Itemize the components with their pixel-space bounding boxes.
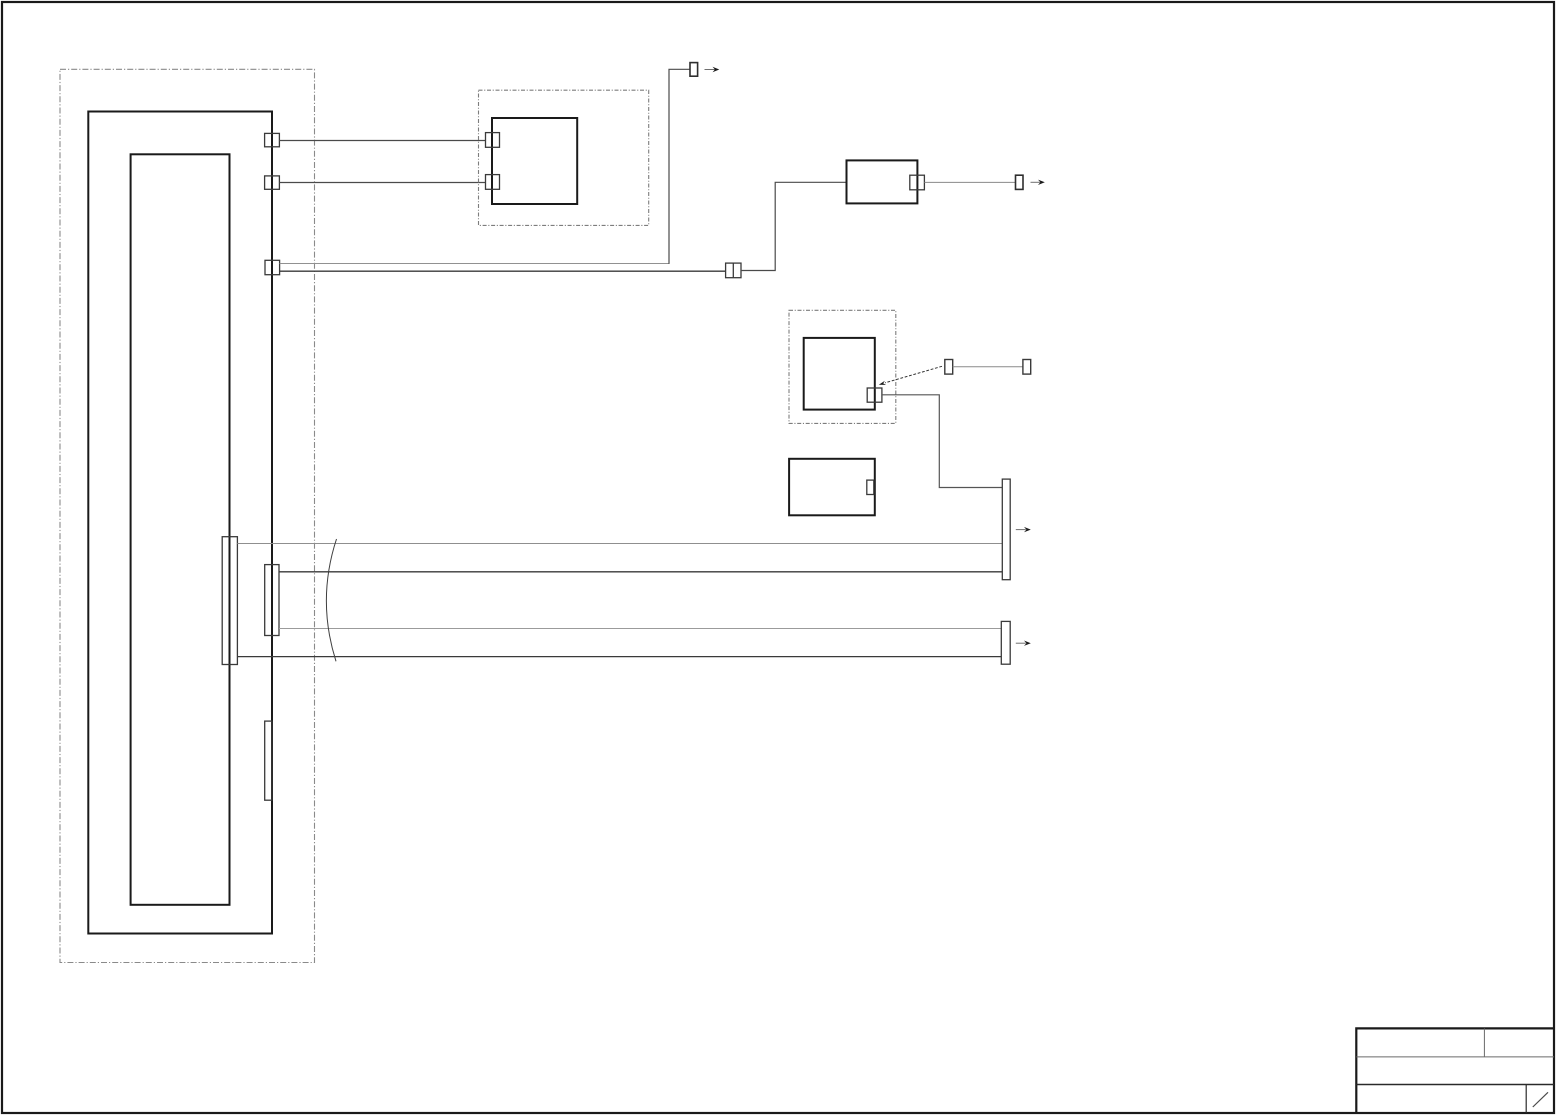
connector X3 (pin 3 on U1 right edge) — [265, 260, 280, 274]
enclosure E3 (dash-dot boundary around sensor unit) — [789, 310, 896, 423]
title block row line 1 — [1356, 1056, 1554, 1058]
connector X7 (pin on U4 right edge, lower) — [867, 388, 882, 402]
connector strip J3 (lower, on U1 outer edge) — [265, 721, 272, 800]
terminal T1 (off-page connector) — [690, 63, 698, 77]
wire W10 (J2 top to SB1) — [279, 571, 1002, 573]
title block column line (row 1) — [1483, 1028, 1485, 1057]
connector X4 (pin on U2 left edge, upper) — [486, 133, 500, 148]
wire W11 (J2 bottom to SB2) — [279, 628, 1001, 630]
splice bar SB2 — [1001, 621, 1010, 664]
component box U1a (inner panel) — [131, 154, 230, 905]
title block row line 2 — [1356, 1084, 1554, 1086]
connector X8 (pin inside U5 right edge) — [867, 480, 874, 494]
wire W2 (X2 to X5) — [279, 182, 485, 184]
title block frame — [1356, 1028, 1554, 1113]
wire W6 (X6 to off-page terminal T2) — [924, 181, 1015, 183]
component box U2 (switch unit) — [492, 118, 577, 204]
leader arrow A3 (callout pointing at X7) — [885, 366, 942, 383]
terminal T2 (off-page connector) — [1016, 175, 1024, 189]
splice bar SB1 — [1002, 479, 1010, 580]
arrow A4 (off-page direction at SB1) — [1016, 529, 1026, 531]
connector bar J2 (on U1 outer edge) — [265, 565, 279, 636]
component box U5 (control unit, unconnected) — [789, 459, 875, 516]
component box U4 (sensor unit) — [804, 338, 875, 410]
inline connector pair P1 — [726, 263, 741, 278]
harness grouping arc (cable bundle mark across W9-W12) — [326, 539, 336, 661]
component box U3 (relay) — [847, 160, 918, 203]
wire W9 (J1 top to SB1) — [237, 543, 1002, 545]
component box U1 (door module outer body) — [88, 112, 272, 934]
connector bar J1 (on U1a inner edge) — [222, 537, 237, 665]
wire W12 (J1 bottom to SB2) — [237, 656, 1001, 658]
wire W1 (X1 to X4) — [279, 140, 485, 142]
connector X5 (pin on U2 left edge, lower) — [486, 175, 500, 190]
terminal T4 (callout connector, right) — [1023, 360, 1031, 375]
arrow A5 (off-page direction at SB2) — [1016, 642, 1026, 644]
wire W4 (X3 branch b, to inline connector P1) — [280, 270, 726, 272]
connector X6 (pin on U3 right edge) — [910, 175, 925, 190]
connector X1 (pin 1 on U1 right edge) — [265, 133, 280, 146]
wire W3a (X3 branch a, horizontal run) — [280, 263, 670, 265]
enclosure E2 (dash-dot boundary around switch unit) — [479, 90, 649, 225]
connector X2 (pin 2 on U1 right edge) — [265, 176, 280, 189]
arrow A2 (off-page direction at T2) — [1031, 181, 1041, 183]
wire W3b (riser up to off-page terminal T1) — [669, 69, 690, 264]
wire W7 (T3 to T4) — [953, 366, 1023, 368]
harness enclosure E1 (dash-dot boundary around door unit) — [60, 69, 315, 962]
arrow A1 (off-page direction at T1) — [705, 69, 716, 71]
title block column line (row 3) — [1525, 1085, 1527, 1114]
wire W8 (X7 routed down to splice bar SB1) — [882, 395, 1002, 488]
title block diagonal slash — [1533, 1092, 1548, 1107]
terminal T3 (callout connector, left) — [945, 360, 953, 375]
wire W5 (P1 to relay U3) — [741, 182, 847, 270]
